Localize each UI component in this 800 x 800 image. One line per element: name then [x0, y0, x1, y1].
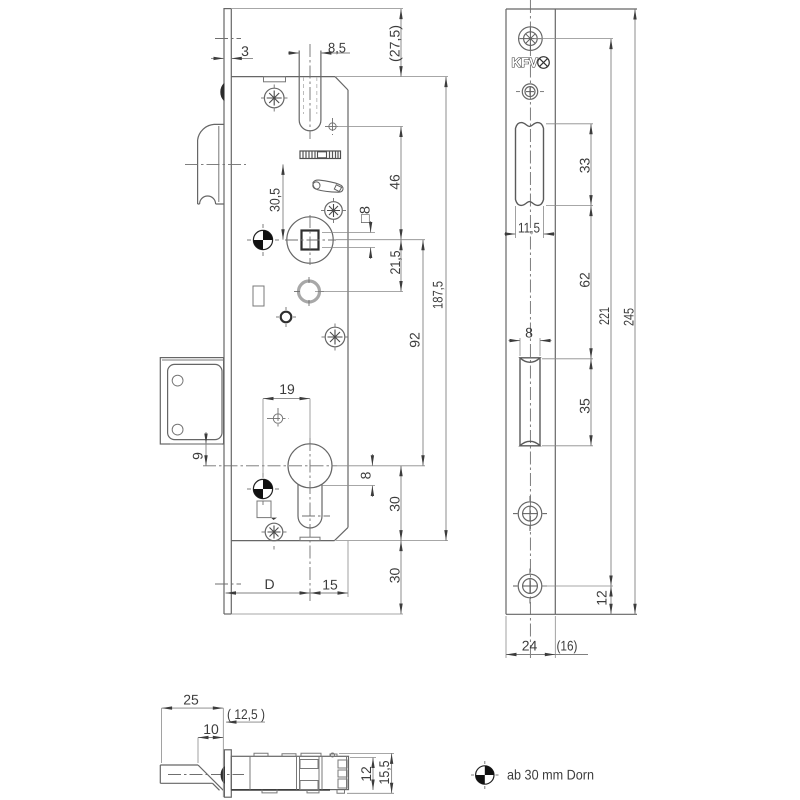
- svg-text:15,5: 15,5: [376, 760, 392, 784]
- latch shaft: [160, 765, 223, 790]
- screw hole small: [516, 84, 544, 99]
- dimension 30 upper: [387, 466, 403, 541]
- ext line 8 below cylinder: [320, 485, 375, 487]
- svg-text:30,5: 30,5: [267, 188, 283, 212]
- pozidriv screw top: [261, 85, 288, 112]
- latch pin dark lens on faceplate: [221, 84, 224, 101]
- screw hole mid-lower: [513, 496, 547, 531]
- lever (curved): [313, 180, 343, 192]
- ext line spindle center to 92: [336, 239, 425, 241]
- deadbolt (left protruding): [160, 358, 223, 444]
- small rect pocket mid: [253, 286, 264, 306]
- dimension 24: [506, 616, 555, 658]
- deadbolt cutout: [520, 358, 540, 446]
- ext line gray hole to 21,5: [315, 291, 403, 293]
- faceplate dim ext lines: [534, 38, 613, 40]
- ext line case bottom to 187,5: [336, 540, 448, 542]
- svg-text:8,5: 8,5: [328, 40, 346, 56]
- dimension 12 section: [350, 758, 376, 791]
- top tab cutout on case: [264, 77, 286, 82]
- svg-text:8: 8: [525, 325, 533, 341]
- screw hole top: [519, 27, 543, 51]
- svg-text:24: 24: [522, 638, 538, 654]
- dimension 92: [407, 240, 425, 466]
- latch tail slot: [299, 44, 321, 139]
- reference point symbol lower: [247, 473, 279, 505]
- dimension 245: [621, 9, 637, 614]
- faceplate outline: [506, 9, 637, 614]
- latch bolt (left protruding): [198, 124, 224, 204]
- dimension 9: [170, 432, 222, 466]
- small dark hole: [276, 307, 296, 327]
- latch shaft centerline: [168, 774, 244, 776]
- svg-text:46: 46: [387, 174, 403, 190]
- svg-text:187,5: 187,5: [430, 281, 446, 309]
- dimension 8 (below cylinder): [358, 454, 375, 497]
- ext line pin to 46: [336, 126, 403, 128]
- dimension 35: [577, 359, 593, 446]
- lock case outline: [231, 77, 348, 541]
- dimension 11,5: [504, 206, 555, 238]
- svg-text:3: 3: [241, 43, 249, 59]
- gray ring hole: [294, 277, 324, 306]
- dimension 30 lower: [387, 541, 403, 614]
- svg-text:□8: □8: [357, 206, 373, 223]
- dimension 15,5: [339, 753, 394, 793]
- faceplate centerline tick top: [215, 38, 241, 40]
- spring (hatched): [300, 151, 341, 159]
- faceplate edge-on strip: [224, 8, 403, 614]
- svg-text:62: 62: [577, 272, 593, 288]
- svg-text:19: 19: [279, 381, 295, 397]
- reference point symbol upper: [247, 224, 279, 256]
- follower square 8mm: [302, 231, 319, 250]
- case section bottom tabs: [262, 790, 345, 794]
- svg-text:25: 25: [183, 692, 199, 708]
- dimension square 8: [322, 206, 375, 259]
- faceplate section bar: [224, 750, 231, 797]
- svg-text:12: 12: [594, 590, 610, 606]
- faceplate centerline tick bottom: [215, 583, 241, 585]
- svg-text:12: 12: [358, 766, 374, 782]
- svg-text:92: 92: [407, 332, 423, 348]
- cylinder hole (PZ): [203, 438, 337, 601]
- latch cutout: [516, 123, 544, 206]
- square pocket lower: [257, 501, 277, 520]
- KFV logo: [512, 55, 550, 70]
- dimension 8 faceplate: [509, 325, 552, 357]
- dimension 12 faceplate: [594, 586, 613, 614]
- dimension 3: [211, 43, 253, 60]
- pozidriv screw fourth: [262, 523, 287, 549]
- svg-text:33: 33: [577, 158, 593, 174]
- svg-text:21,5: 21,5: [387, 250, 403, 274]
- dimension (27,5): [387, 9, 403, 77]
- svg-text:8: 8: [358, 471, 374, 479]
- latch centerline: [185, 163, 246, 165]
- dimension 33: [577, 124, 593, 206]
- svg-text:10: 10: [203, 721, 219, 737]
- dimension 21,5: [387, 240, 403, 292]
- follower hub circle: [287, 217, 333, 263]
- follower centerlines: [285, 239, 336, 241]
- dimension 46: [387, 127, 403, 240]
- latch pin dark lens section: [221, 767, 224, 783]
- svg-text:9: 9: [190, 452, 206, 460]
- dimension 221: [596, 39, 613, 586]
- svg-text:245: 245: [621, 308, 637, 326]
- dimension 62: [577, 206, 593, 359]
- svg-text:11,5: 11,5: [518, 220, 540, 236]
- svg-text:221: 221: [596, 307, 612, 325]
- svg-text:(27,5): (27,5): [387, 25, 403, 62]
- dimension 25: [162, 692, 224, 798]
- reference point symbol note: [471, 761, 499, 789]
- dimension 30,5: [267, 164, 285, 239]
- dimension 187,5: [430, 77, 448, 541]
- dimension 8,5: [288, 40, 350, 56]
- pozidriv screw third: [322, 324, 349, 351]
- cylinder bottom plate: [300, 537, 320, 540]
- dimension (12,5): [226, 706, 265, 724]
- dimension 19: [263, 381, 310, 478]
- svg-text:35: 35: [577, 398, 593, 414]
- ext line case top to 187,5: [335, 76, 448, 78]
- case section top tabs: [254, 753, 337, 756]
- small pin hole: [325, 118, 340, 135]
- case section internal walls: [250, 753, 347, 790]
- dimension (16): [555, 638, 588, 655]
- svg-text:KFV: KFV: [512, 55, 539, 70]
- pozidriv screw second: [321, 198, 346, 223]
- svg-text:15: 15: [322, 577, 338, 593]
- small crosshair hole (19 dim): [267, 408, 289, 429]
- svg-text:30: 30: [387, 568, 403, 584]
- svg-text:(16): (16): [557, 638, 578, 654]
- svg-text:30: 30: [387, 496, 403, 512]
- faceplate centerline: [529, 0, 531, 658]
- screw hole bottom: [513, 569, 547, 604]
- case section body: [231, 756, 348, 790]
- ext line cylinder center to 92/30: [337, 465, 425, 467]
- dimension D: [226, 576, 311, 595]
- dimension 15: [310, 541, 348, 597]
- svg-text:D: D: [264, 576, 274, 592]
- dimension 10: [198, 721, 223, 763]
- svg-text:( 12,5 ): ( 12,5 ): [227, 706, 265, 722]
- svg-text:ab 30 mm Dorn: ab 30 mm Dorn: [507, 767, 594, 783]
